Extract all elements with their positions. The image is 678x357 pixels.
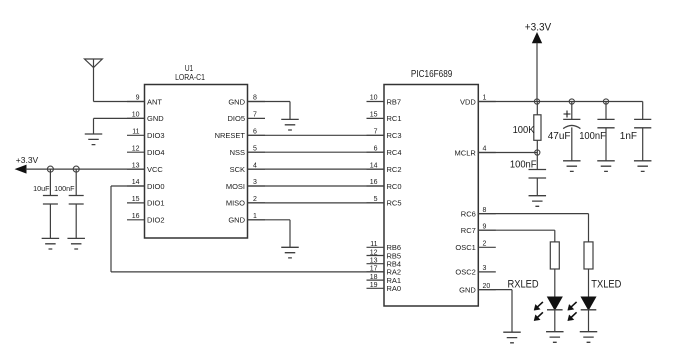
pin 12 RB5 of PIC16F689 (367, 249, 402, 260)
pin 13 RB4 of PIC16F689 (367, 258, 402, 269)
pin 18 RA1 of PIC16F689 (367, 274, 402, 285)
pin 10 GND of U1 (127, 112, 164, 124)
svg-text:+3.3V: +3.3V (16, 155, 39, 165)
wire NRESET to RC3 (248, 134, 385, 136)
pin 12 DIO4 of U1 (127, 145, 165, 157)
svg-text:11: 11 (132, 129, 139, 136)
pin 6 RC4 of PIC16F689 (367, 145, 402, 157)
svg-text:2: 2 (253, 196, 257, 203)
pin 8 GND of U1 (228, 95, 265, 107)
svg-text:RC4: RC4 (387, 148, 402, 157)
ground (RXLED) (546, 332, 564, 343)
svg-text:13: 13 (370, 258, 378, 265)
pin 7 DIO5 of U1 (227, 112, 265, 124)
svg-text:+3.3V: +3.3V (525, 21, 551, 34)
svg-text:OSC1: OSC1 (455, 243, 475, 252)
pin 4 MCLR of PIC16F689 (455, 146, 496, 158)
svg-text:14: 14 (370, 162, 378, 169)
svg-text:11: 11 (370, 241, 377, 248)
ground (47uF) (563, 161, 581, 172)
pin 5 NSS of U1 (230, 145, 265, 157)
wire antenna to ANT pin 9 (94, 101, 145, 103)
svg-text:5: 5 (253, 145, 257, 152)
wire MCLR to junction (478, 152, 537, 154)
capacitor 100nF (MCLR) (510, 153, 546, 196)
resistor (TXLED) (584, 242, 593, 298)
svg-text:3: 3 (253, 179, 257, 186)
wire NSS to RC4 (248, 151, 385, 153)
node junction J5 (603, 99, 608, 104)
svg-text:1nF: 1nF (620, 131, 637, 142)
ground (PIC GND) (503, 332, 521, 343)
capacitor 10uF (33, 169, 58, 238)
ground (100nF VDD) (597, 161, 615, 172)
ground (antenna side) (85, 134, 103, 145)
svg-text:10: 10 (370, 95, 378, 102)
pin 9 RC7 of PIC16F689 (461, 223, 496, 235)
svg-text:OSC2: OSC2 (455, 268, 475, 277)
pin 2 MISO of U1 (226, 196, 265, 208)
ground (1nF) (634, 161, 652, 172)
resistor 100K (513, 102, 541, 153)
svg-text:NSS: NSS (230, 148, 245, 157)
svg-text:RC2: RC2 (387, 165, 402, 174)
ground (U1 pin1) (281, 247, 299, 258)
pin 3 MOSI of U1 (226, 179, 265, 191)
pin 13 VCC of U1 (127, 162, 163, 174)
pin 15 RC1 of PIC16F689 (367, 112, 402, 124)
pin 11 RB6 of PIC16F689 (367, 241, 402, 252)
svg-text:DIO0: DIO0 (147, 182, 165, 191)
svg-text:RB7: RB7 (387, 97, 402, 106)
pin 5 RC5 of PIC16F689 (367, 196, 402, 208)
svg-text:RXLED: RXLED (508, 279, 539, 291)
svg-text:47uF: 47uF (548, 131, 571, 142)
svg-text:GND: GND (459, 285, 476, 294)
svg-text:8: 8 (253, 95, 257, 102)
antenna ANT1 (85, 59, 103, 102)
svg-text:100nF: 100nF (54, 184, 75, 193)
pin 10 RB7 of PIC16F689 (367, 95, 402, 107)
wire GND pin10 to ground (94, 118, 145, 134)
pin 9 ANT of U1 (127, 95, 162, 107)
wire RC7 to RXLED resistor (478, 230, 555, 242)
svg-text:15: 15 (370, 112, 378, 119)
wire DIO0 pin14 to RA2 pin17 (111, 186, 384, 272)
svg-text:100nF: 100nF (510, 159, 537, 170)
svg-text:DIO4: DIO4 (147, 148, 165, 157)
IC U1 LORA-C1 body (145, 85, 248, 239)
svg-text:4: 4 (483, 146, 487, 153)
svg-text:10: 10 (132, 112, 140, 119)
svg-text:100nF: 100nF (579, 131, 606, 142)
ground (10uF) (42, 238, 60, 249)
pin 7 RC3 of PIC16F689 (367, 129, 402, 141)
LED TXLED (568, 279, 622, 332)
svg-text:6: 6 (374, 145, 378, 152)
svg-text:12: 12 (370, 249, 378, 256)
pin 4 SCK of U1 (230, 162, 265, 174)
power +3.3V (top) (525, 21, 551, 102)
svg-text:13: 13 (132, 162, 140, 169)
svg-text:6: 6 (253, 129, 257, 136)
svg-text:19: 19 (370, 282, 378, 289)
value PIC16F689 (411, 67, 452, 79)
capacitor 100nF (VDD) (579, 102, 614, 161)
svg-text:DIO3: DIO3 (147, 131, 165, 140)
refdes U1 (185, 64, 193, 74)
pin 1 GND of U1 (228, 213, 265, 225)
svg-text:MCLR: MCLR (455, 148, 477, 157)
svg-text:RC6: RC6 (461, 209, 476, 218)
node junction J4 (569, 99, 574, 104)
svg-text:7: 7 (374, 129, 378, 136)
svg-text:MOSI: MOSI (226, 182, 245, 191)
capacitor 47uF (548, 102, 581, 161)
svg-text:LORA-C1: LORA-C1 (175, 72, 205, 82)
svg-text:RC7: RC7 (461, 226, 476, 235)
svg-text:7: 7 (253, 112, 257, 119)
IC PIC16F689 body (384, 85, 478, 307)
pin 16 RC0 of PIC16F689 (367, 179, 402, 191)
svg-text:PIC16F689: PIC16F689 (411, 67, 452, 79)
svg-text:10uF: 10uF (33, 184, 50, 193)
capacitor 100nF (left) (54, 169, 84, 238)
svg-text:ANT: ANT (147, 97, 162, 106)
pin 6 NRESET of U1 (215, 129, 265, 141)
wire RC6 to TXLED resistor (478, 214, 588, 242)
svg-text:20: 20 (483, 283, 491, 290)
svg-text:12: 12 (132, 145, 140, 152)
ground (100nF left) (67, 238, 85, 249)
svg-text:VCC: VCC (147, 165, 163, 174)
svg-text:8: 8 (483, 207, 487, 214)
ground (TXLED) (580, 332, 598, 343)
svg-text:SCK: SCK (230, 165, 245, 174)
svg-text:16: 16 (370, 179, 378, 186)
power +3.3V (left) (16, 155, 39, 173)
wire GND pin8 to ground (248, 102, 291, 120)
pin 8 RC6 of PIC16F689 (461, 207, 496, 219)
wire VDD rail (478, 101, 642, 103)
svg-text:NRESET: NRESET (215, 131, 246, 140)
svg-text:RC5: RC5 (387, 199, 402, 208)
svg-text:1: 1 (483, 95, 487, 102)
pin 2 OSC1 of PIC16F689 (455, 241, 495, 253)
ground (U1 pin8) (281, 119, 299, 130)
svg-text:16: 16 (132, 213, 140, 220)
wire MISO to RC5 (248, 202, 385, 204)
svg-text:RC3: RC3 (387, 131, 402, 140)
svg-text:MISO: MISO (226, 199, 245, 208)
svg-text:TXLED: TXLED (591, 279, 621, 291)
svg-text:9: 9 (483, 223, 487, 230)
node junction J1 (47, 166, 53, 172)
svg-text:1: 1 (253, 213, 257, 220)
pin 15 DIO1 of U1 (127, 196, 165, 208)
LED RXLED (508, 279, 563, 332)
value LORA-C1 (175, 72, 205, 82)
ground (MCLR cap) (529, 196, 547, 207)
wire MOSI to RC0 (248, 185, 385, 187)
resistor (RXLED) (550, 242, 559, 298)
svg-text:3: 3 (483, 265, 487, 272)
wire GND pin20 to ground (478, 290, 512, 333)
svg-text:9: 9 (136, 95, 140, 102)
pin 3 OSC2 of PIC16F689 (455, 265, 495, 277)
svg-text:RC1: RC1 (387, 114, 402, 123)
svg-text:14: 14 (132, 179, 140, 186)
svg-text:GND: GND (228, 216, 245, 225)
node junction J2 (73, 166, 79, 172)
svg-text:RA0: RA0 (387, 284, 402, 293)
wire GND pin1 to ground (248, 220, 291, 248)
wire SCK to RC2 (248, 168, 385, 170)
capacitor 1nF (620, 102, 652, 161)
wire +3.3V rail to VCC pin13 (26, 168, 145, 170)
svg-text:18: 18 (370, 274, 378, 281)
svg-text:GND: GND (228, 97, 245, 106)
pin 20 GND of PIC16F689 (459, 283, 496, 295)
pin 14 DIO0 of U1 (127, 179, 165, 191)
svg-text:GND: GND (147, 114, 164, 123)
pin 16 DIO2 of U1 (127, 213, 165, 225)
node junction J6 (535, 150, 540, 155)
svg-text:RC0: RC0 (387, 182, 402, 191)
svg-text:5: 5 (374, 196, 378, 203)
pin 1 VDD of PIC16F689 (460, 95, 496, 107)
svg-text:DIO2: DIO2 (147, 216, 165, 225)
pin 11 DIO3 of U1 (127, 129, 165, 141)
pin 17 RA2 of PIC16F689 (367, 266, 402, 277)
svg-text:VDD: VDD (460, 97, 476, 106)
pin 14 RC2 of PIC16F689 (367, 162, 402, 174)
svg-text:15: 15 (132, 196, 140, 203)
svg-text:DIO5: DIO5 (227, 114, 245, 123)
svg-text:4: 4 (253, 162, 257, 169)
svg-text:100K: 100K (513, 125, 535, 136)
node junction J3 (534, 99, 539, 104)
pin 19 RA0 of PIC16F689 (367, 282, 402, 293)
svg-text:DIO1: DIO1 (147, 199, 165, 208)
svg-text:2: 2 (483, 241, 487, 248)
